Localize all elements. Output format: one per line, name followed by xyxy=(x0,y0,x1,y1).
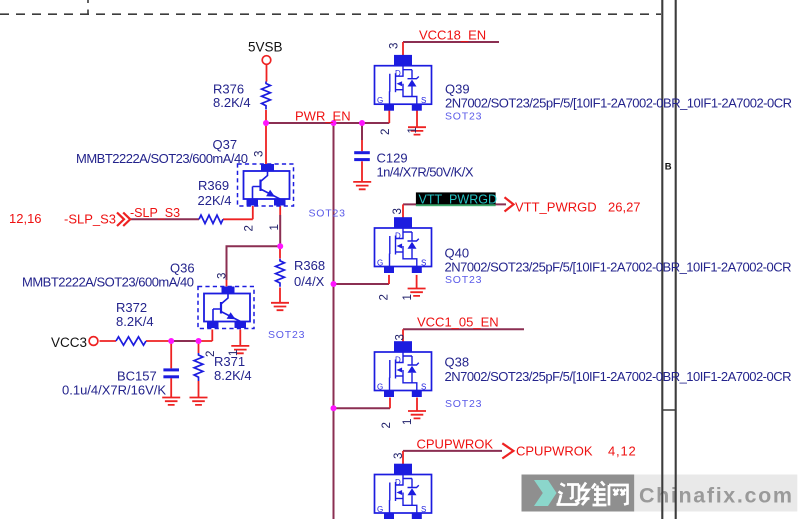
svg-text:MMBT2222A/SOT23/600mA/40: MMBT2222A/SOT23/600mA/40 xyxy=(22,275,194,290)
svg-text:Q39: Q39 xyxy=(445,82,470,97)
svg-text:2: 2 xyxy=(379,294,391,300)
svg-text:VTT_PWRGD: VTT_PWRGD xyxy=(419,192,497,206)
svg-text:VCC3: VCC3 xyxy=(51,335,87,350)
svg-text:SOT23: SOT23 xyxy=(445,111,482,123)
svg-text:Q37: Q37 xyxy=(213,137,238,152)
svg-text:2: 2 xyxy=(244,225,256,231)
svg-text:3: 3 xyxy=(217,273,229,279)
svg-text:R369: R369 xyxy=(198,178,229,193)
svg-text:Q36: Q36 xyxy=(170,261,195,276)
svg-text:-SLP_S3: -SLP_S3 xyxy=(130,206,180,220)
svg-text:SOT23: SOT23 xyxy=(309,208,346,220)
svg-text:2: 2 xyxy=(380,129,392,135)
svg-text:-SLP_S3: -SLP_S3 xyxy=(64,212,116,227)
svg-text:PWR_EN: PWR_EN xyxy=(295,109,351,124)
svg-text:12,16: 12,16 xyxy=(9,211,42,226)
svg-text:0.1u/4/X7R/16V/K: 0.1u/4/X7R/16V/K xyxy=(62,383,166,398)
svg-text:2N7002/SOT23/25pF/5/[10IF1-2A7: 2N7002/SOT23/25pF/5/[10IF1-2A7002-0BR_10… xyxy=(445,369,792,384)
svg-text:2: 2 xyxy=(205,351,217,357)
svg-text:2N7002/SOT23/25pF/5/[10IF1-2A7: 2N7002/SOT23/25pF/5/[10IF1-2A7002-0BR_10… xyxy=(445,96,792,111)
svg-text:5VSB: 5VSB xyxy=(248,40,283,55)
svg-text:8.2K/4: 8.2K/4 xyxy=(116,314,154,329)
svg-text:VTT_PWRGD: VTT_PWRGD xyxy=(515,200,597,215)
svg-text:3: 3 xyxy=(395,334,407,340)
svg-text:BC157: BC157 xyxy=(117,369,157,384)
svg-text:VCC18_EN: VCC18_EN xyxy=(419,28,486,43)
svg-text:SOT23: SOT23 xyxy=(445,274,482,286)
svg-text:1: 1 xyxy=(407,127,419,133)
svg-text:Q38: Q38 xyxy=(445,355,470,370)
svg-text:3: 3 xyxy=(389,43,401,49)
svg-text:B: B xyxy=(665,162,672,173)
svg-text:Q40: Q40 xyxy=(445,245,470,260)
svg-text:SOT23: SOT23 xyxy=(268,329,305,341)
svg-text:CPUPWROK: CPUPWROK xyxy=(417,437,494,452)
svg-text:SOT23: SOT23 xyxy=(445,398,482,410)
svg-text:MMBT2222A/SOT23/600mA/40: MMBT2222A/SOT23/600mA/40 xyxy=(76,151,248,166)
svg-text:2N7002/SOT23/25pF/5/[10IF1-2A7: 2N7002/SOT23/25pF/5/[10IF1-2A7002-0BR_10… xyxy=(445,260,792,275)
svg-text:26,27: 26,27 xyxy=(608,200,641,215)
svg-text:2: 2 xyxy=(381,422,393,428)
svg-text:1: 1 xyxy=(402,419,414,425)
svg-text:3: 3 xyxy=(254,151,266,157)
svg-text:1n/4/X7R/50V/K/X: 1n/4/X7R/50V/K/X xyxy=(377,164,474,179)
svg-text:VCC1_05_EN: VCC1_05_EN xyxy=(417,315,499,330)
svg-text:0/4/X: 0/4/X xyxy=(294,274,325,289)
svg-text:C129: C129 xyxy=(377,150,408,165)
svg-text:R368: R368 xyxy=(294,258,325,273)
svg-text:1: 1 xyxy=(228,350,240,356)
svg-text:3: 3 xyxy=(392,208,404,214)
svg-text:3: 3 xyxy=(393,453,405,459)
svg-text:1: 1 xyxy=(402,294,414,300)
svg-text:4,12: 4,12 xyxy=(608,444,637,459)
svg-text:R372: R372 xyxy=(116,300,147,315)
svg-text:1: 1 xyxy=(269,224,281,230)
svg-text:8.2K/4: 8.2K/4 xyxy=(214,368,252,383)
svg-text:CPUPWROK: CPUPWROK xyxy=(516,444,593,459)
svg-text:8.2K/4: 8.2K/4 xyxy=(213,95,251,110)
svg-text:22K/4: 22K/4 xyxy=(198,193,232,208)
